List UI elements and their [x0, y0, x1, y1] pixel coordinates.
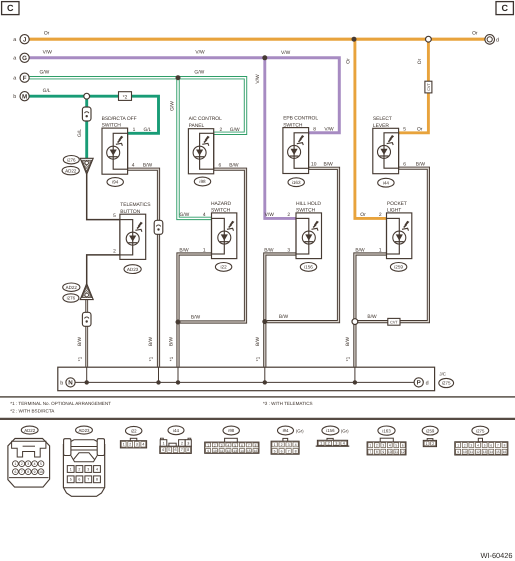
svg-text:1: 1: [70, 467, 72, 471]
svg-text:J: J: [23, 36, 27, 43]
svg-text:d: d: [426, 380, 429, 386]
svg-text:i98: i98: [228, 428, 234, 433]
label AD22 upper: [62, 166, 79, 174]
label i163 oval: [378, 426, 395, 435]
svg-text:B/W: B/W: [77, 336, 83, 346]
wire stub into bus: [264, 367, 266, 382]
svg-text:J/C: J/C: [439, 372, 446, 377]
svg-text:4: 4: [295, 443, 297, 447]
svg-text:15: 15: [247, 449, 251, 453]
svg-text:4: 4: [389, 444, 391, 448]
connector i94 pinout: [283, 438, 288, 441]
optional junction Or bus (open): [426, 36, 432, 42]
svg-text:i22: i22: [221, 265, 228, 270]
svg-text:4: 4: [132, 162, 135, 168]
wire G/W bus (F to A/C panel): [29, 78, 245, 134]
svg-text:8: 8: [295, 449, 297, 453]
connector i163 pinout: [380, 438, 393, 442]
svg-text:9: 9: [34, 470, 36, 474]
svg-text:8: 8: [255, 443, 257, 447]
svg-text:B/W: B/W: [168, 336, 174, 346]
svg-text:1: 1: [369, 444, 371, 448]
svg-text:2: 2: [181, 442, 183, 446]
svg-text:3: 3: [27, 462, 29, 466]
svg-text:LEVER: LEVER: [373, 123, 389, 129]
svg-text:F: F: [23, 75, 27, 82]
svg-text:5: 5: [403, 127, 406, 133]
label i259 connector oval: [390, 263, 406, 272]
svg-text:13: 13: [483, 450, 487, 454]
svg-text:V/W: V/W: [281, 50, 291, 56]
wire B/W telematics chain to ground bus: [85, 299, 88, 367]
svg-text:4: 4: [142, 443, 144, 447]
svg-text:*1: *1: [256, 356, 262, 361]
separator thick line: [0, 418, 515, 420]
svg-text:2: 2: [328, 442, 330, 446]
svg-text:B/W: B/W: [143, 162, 153, 168]
grid reference C right: [496, 2, 513, 15]
svg-text:12: 12: [476, 450, 480, 454]
svg-text:10: 10: [213, 449, 217, 453]
wire G/L drop to connector triangle: [85, 96, 88, 159]
wire V/W drop to HILL HOLD pin 2: [265, 58, 296, 219]
svg-text:2: 2: [78, 467, 80, 471]
svg-text:13: 13: [233, 449, 237, 453]
svg-text:Or: Or: [345, 58, 351, 64]
svg-text:3: 3: [382, 444, 384, 448]
svg-text:16: 16: [503, 450, 507, 454]
svg-text:6: 6: [490, 444, 492, 448]
label i156 oval and (Gr): [322, 426, 339, 435]
svg-text:a: a: [13, 76, 16, 82]
svg-text:4: 4: [228, 443, 230, 447]
svg-text:a: a: [13, 37, 16, 43]
connector d right end of Or bus: [485, 35, 495, 45]
svg-text:B/W: B/W: [345, 336, 351, 346]
svg-text:G: G: [22, 55, 27, 62]
svg-text:BSD/RCTA OFF: BSD/RCTA OFF: [102, 116, 137, 122]
svg-text:1: 1: [320, 442, 322, 446]
CVT option box on select B/W wire: [388, 318, 400, 325]
junction dot EPB + hill hold B/W: [262, 319, 267, 324]
grid reference C left: [2, 2, 19, 15]
label i98 oval: [223, 426, 239, 435]
lamp POCKET LIGHT: [387, 213, 412, 259]
svg-text:Or: Or: [44, 31, 50, 37]
svg-text:TELEMATICS: TELEMATICS: [120, 202, 151, 208]
svg-text:G/L: G/L: [144, 127, 152, 133]
svg-text:i156: i156: [304, 265, 313, 270]
svg-text:7: 7: [497, 444, 499, 448]
svg-text:6: 6: [78, 478, 80, 482]
svg-text:2: 2: [129, 443, 131, 447]
junction dot A/C + hazard B/W: [176, 320, 181, 325]
svg-text:BUTTON: BUTTON: [120, 209, 140, 215]
ground bus wire N to P: [75, 381, 414, 383]
svg-text:AD22: AD22: [66, 285, 78, 290]
wire B/W EPB pin 10 joining hill hold wire: [267, 168, 339, 321]
svg-text:3: 3: [187, 442, 189, 446]
junction dot on ground bus: [85, 380, 89, 384]
svg-text:Or: Or: [472, 30, 478, 36]
svg-text:12: 12: [401, 450, 405, 454]
svg-text:4: 4: [96, 467, 98, 471]
wire TELEMATICS pin 2 to lower triangle: [87, 255, 120, 285]
wire B/W HAZARD pin 1 down to ground bus: [178, 254, 212, 367]
svg-text:2: 2: [464, 444, 466, 448]
svg-text:b: b: [60, 380, 63, 386]
svg-text:AD22: AD22: [65, 168, 77, 173]
svg-text:Or: Or: [417, 127, 423, 133]
svg-text:2: 2: [281, 443, 283, 447]
label i156 connector oval: [300, 263, 316, 272]
label i259 oval: [422, 426, 438, 435]
connector i22 pinout: [130, 438, 137, 441]
svg-text:G/L: G/L: [77, 129, 83, 137]
svg-text:POCKET: POCKET: [387, 201, 407, 207]
svg-text:G/W: G/W: [230, 127, 240, 133]
svg-text:B/W: B/W: [148, 336, 154, 346]
svg-text:i259: i259: [394, 265, 403, 270]
connector pair AD22/i276 upper (triangle): [80, 158, 93, 174]
label i275 junction connector oval: [439, 378, 454, 387]
label AD23 connector oval: [124, 265, 141, 274]
svg-text:1: 1: [162, 442, 164, 446]
svg-text:B/W: B/W: [279, 314, 289, 320]
label AD22 lower: [63, 283, 80, 291]
svg-text:14: 14: [240, 449, 244, 453]
wire Or drop to POCKET LIGHT pin 2: [355, 39, 387, 218]
ground bus junction box: [58, 367, 435, 391]
svg-text:i22: i22: [131, 429, 137, 434]
svg-text:i276: i276: [67, 157, 76, 162]
svg-text:EPB CONTROL: EPB CONTROL: [283, 116, 318, 122]
svg-text:7: 7: [181, 448, 183, 452]
label i276 upper: [63, 156, 79, 164]
svg-text:7: 7: [87, 478, 89, 482]
svg-text:5: 5: [168, 448, 170, 452]
svg-text:2: 2: [113, 249, 116, 255]
svg-text:6: 6: [14, 470, 16, 474]
svg-text:i98: i98: [199, 179, 206, 184]
wire B/W HILL HOLD pin 3 down to ground bus: [265, 254, 296, 367]
optional junction pocket + select B/W (open): [352, 319, 358, 325]
svg-text:AD23: AD23: [79, 428, 91, 433]
svg-text:7: 7: [248, 443, 250, 447]
svg-text:1: 1: [133, 127, 136, 133]
connector i259 pinout: [427, 439, 433, 441]
noise filter symbol on G/L drop: [82, 107, 91, 121]
svg-text:CVT: CVT: [390, 320, 398, 324]
wire stub into bus: [86, 367, 88, 382]
svg-text:3: 3: [87, 467, 89, 471]
svg-text:4: 4: [477, 444, 479, 448]
svg-text:4: 4: [343, 442, 345, 446]
connector P ground bus: [414, 378, 423, 387]
connector pair AD22/i276 lower (triangle): [80, 284, 93, 300]
svg-text:*2 : WITH BSD/RCTA: *2 : WITH BSD/RCTA: [10, 409, 55, 414]
svg-text:1: 1: [457, 444, 459, 448]
junction dot G/W bus: [176, 75, 181, 80]
svg-text:C: C: [7, 3, 14, 13]
svg-text:1: 1: [274, 443, 276, 447]
option box *2 on G/L bus: [119, 92, 132, 101]
svg-text:SWITCH: SWITCH: [296, 208, 316, 214]
svg-text:i156: i156: [326, 428, 335, 433]
svg-text:*1: *1: [346, 356, 352, 361]
label AD22 oval: [21, 426, 38, 434]
wire Or drop via CVT to SELECT LEVER pin 5: [399, 39, 429, 133]
svg-text:SELECT: SELECT: [373, 116, 392, 122]
label AD23 oval: [76, 426, 93, 434]
svg-text:G/W: G/W: [194, 70, 204, 76]
svg-text:SWITCH: SWITCH: [283, 122, 303, 128]
svg-text:CVT: CVT: [427, 83, 431, 91]
connector AD22 pinout: [8, 439, 50, 488]
svg-text:PANEL: PANEL: [189, 123, 205, 129]
label i276 lower: [63, 294, 79, 302]
lamp HAZARD SWITCH: [212, 213, 237, 259]
label i275 oval: [472, 426, 489, 435]
svg-text:3: 3: [221, 443, 223, 447]
svg-text:11: 11: [220, 449, 224, 453]
label i44 oval: [168, 426, 184, 435]
svg-text:2: 2: [379, 212, 382, 218]
svg-text:9: 9: [382, 450, 384, 454]
wire B/W SELECT LEVER pin 6 via CVT joining pocket wire: [358, 168, 428, 321]
svg-text:2: 2: [376, 444, 378, 448]
svg-text:V/W: V/W: [265, 212, 275, 218]
svg-text:i275: i275: [476, 428, 485, 433]
svg-text:Or: Or: [360, 212, 366, 218]
svg-text:B/W: B/W: [355, 248, 365, 254]
svg-text:5: 5: [234, 443, 236, 447]
wire G/L bus (M to BSD/RCTA pin 1): [29, 96, 158, 133]
junction dot on ground bus: [353, 380, 357, 384]
label i22 connector oval: [215, 263, 231, 272]
svg-text:V/W: V/W: [255, 74, 261, 84]
svg-text:3: 3: [287, 248, 290, 254]
svg-text:B/W: B/W: [229, 162, 239, 168]
junction dot Or bus: [352, 37, 357, 42]
svg-text:11: 11: [470, 450, 474, 454]
svg-text:1: 1: [203, 248, 206, 254]
optional junction G/L bus (open): [84, 93, 90, 99]
connector AD23 pinout: [63, 444, 104, 496]
svg-text:i44: i44: [173, 428, 179, 433]
svg-text:3: 3: [335, 442, 337, 446]
svg-text:SWITCH: SWITCH: [102, 123, 122, 129]
svg-text:10: 10: [311, 162, 317, 168]
svg-text:15: 15: [496, 450, 500, 454]
connector i275 pinout: [478, 438, 482, 442]
svg-text:N: N: [68, 380, 73, 387]
svg-text:B/W: B/W: [416, 161, 426, 167]
junction dot on ground bus: [263, 380, 267, 384]
svg-text:*1: *1: [78, 356, 84, 361]
wire B/W POCKET LIGHT pin 1 down to ground bus: [355, 254, 387, 367]
junction dot on ground bus: [176, 380, 180, 384]
svg-text:9: 9: [207, 449, 209, 453]
label i98 connector oval: [194, 177, 210, 186]
svg-text:4: 4: [34, 462, 36, 466]
svg-text:*3 : WITH TELEMATICS: *3 : WITH TELEMATICS: [263, 401, 313, 406]
svg-text:6: 6: [174, 448, 176, 452]
junction dot V/W bus: [262, 55, 267, 60]
svg-text:6: 6: [241, 443, 243, 447]
svg-text:*2: *2: [123, 94, 128, 100]
svg-text:(Gr): (Gr): [296, 429, 304, 434]
label i22 oval: [126, 426, 142, 435]
CVT option box on Or select drop: [425, 81, 432, 93]
svg-text:B/W: B/W: [264, 248, 274, 254]
svg-text:7: 7: [369, 450, 371, 454]
svg-text:M: M: [22, 93, 27, 100]
svg-text:SWITCH: SWITCH: [211, 208, 231, 214]
svg-text:6: 6: [403, 161, 406, 167]
lamp TELEMATICS BUTTON: [120, 214, 146, 259]
svg-text:2: 2: [432, 442, 434, 446]
wire Or bus (J to d): [29, 38, 485, 41]
noise filter symbol on telematics B/W wire: [82, 312, 91, 326]
label i44 connector oval: [378, 178, 394, 187]
svg-text:5: 5: [113, 213, 116, 219]
wire stub into bus: [354, 367, 356, 382]
svg-text:10: 10: [463, 450, 467, 454]
svg-text:i94: i94: [283, 428, 289, 433]
wire stub into bus: [158, 367, 160, 382]
svg-text:5: 5: [395, 444, 397, 448]
svg-text:1: 1: [14, 462, 16, 466]
junction dot on ground bus: [156, 380, 160, 384]
connector i98 pinout: [225, 438, 238, 442]
label i94 connector oval: [107, 178, 123, 187]
svg-text:12: 12: [227, 449, 231, 453]
wire G/W drop to HAZARD pin 4: [178, 78, 212, 219]
svg-text:AD23: AD23: [127, 267, 139, 272]
svg-text:5: 5: [274, 449, 276, 453]
svg-text:6: 6: [219, 162, 222, 168]
noise filter symbol on BSD B/W wire: [154, 220, 163, 234]
connector i44 pinout: [161, 438, 164, 440]
svg-text:a: a: [13, 56, 16, 62]
svg-text:AD22: AD22: [24, 428, 36, 433]
lamp BSD/RCTA OFF SWITCH: [102, 128, 128, 174]
wire triangle to TELEMATICS pin 5: [87, 174, 120, 220]
svg-text:B/W: B/W: [324, 162, 334, 168]
wire B/W A/C panel pin 6 joining hazard wire: [180, 169, 246, 322]
svg-text:8: 8: [376, 450, 378, 454]
svg-text:3: 3: [470, 444, 472, 448]
svg-text:G/L: G/L: [43, 88, 51, 94]
svg-text:*1 : TERMINAL No. OPTIONAL AR: *1 : TERMINAL No. OPTIONAL ARRANGEMENT: [10, 401, 111, 406]
svg-text:3: 3: [288, 443, 290, 447]
svg-text:LIGHT: LIGHT: [387, 208, 401, 214]
lamp HILL HOLD SWITCH: [296, 213, 322, 259]
svg-text:6: 6: [281, 449, 283, 453]
svg-text:7: 7: [288, 449, 290, 453]
svg-text:8: 8: [96, 478, 98, 482]
svg-text:i44: i44: [383, 180, 390, 185]
svg-text:7: 7: [21, 470, 23, 474]
svg-text:2: 2: [214, 443, 216, 447]
svg-text:WI-60426: WI-60426: [480, 551, 512, 560]
connector i156 pinout: [327, 438, 333, 440]
svg-text:8: 8: [504, 444, 506, 448]
svg-text:V/W: V/W: [195, 50, 205, 56]
wire stub into bus: [177, 367, 179, 382]
svg-text:V/W: V/W: [324, 126, 334, 132]
svg-text:6: 6: [402, 444, 404, 448]
svg-text:14: 14: [489, 450, 493, 454]
svg-text:A/C CONTROL: A/C CONTROL: [189, 116, 222, 122]
svg-text:B/W: B/W: [191, 314, 201, 320]
svg-text:G/W: G/W: [180, 212, 190, 218]
svg-text:5: 5: [40, 462, 42, 466]
svg-text:11: 11: [394, 450, 398, 454]
svg-text:1: 1: [123, 443, 125, 447]
svg-text:1: 1: [379, 248, 382, 254]
svg-text:4: 4: [162, 448, 164, 452]
svg-text:C: C: [501, 3, 508, 13]
svg-text:i275: i275: [442, 381, 451, 386]
label i163 connector oval: [288, 178, 304, 187]
svg-text:P: P: [417, 380, 421, 387]
wire B/W BSD/RCTA pin 4 down to ground bus: [128, 169, 159, 367]
svg-text:V/W: V/W: [43, 50, 53, 56]
svg-text:*1: *1: [149, 356, 155, 361]
svg-text:10: 10: [388, 450, 392, 454]
svg-text:b: b: [13, 94, 16, 100]
svg-text:2: 2: [287, 212, 290, 218]
svg-text:1: 1: [426, 442, 428, 446]
svg-text:8: 8: [27, 470, 29, 474]
svg-text:2: 2: [21, 462, 23, 466]
svg-text:10: 10: [39, 470, 43, 474]
svg-text:B/W: B/W: [179, 248, 189, 254]
separator line: [0, 396, 515, 398]
svg-text:Or: Or: [417, 58, 423, 64]
svg-text:G/W: G/W: [169, 101, 175, 111]
svg-text:16: 16: [254, 449, 258, 453]
svg-text:8: 8: [313, 126, 316, 132]
wire V/W bus (G to EPB): [29, 58, 339, 133]
svg-text:B/W: B/W: [367, 314, 377, 320]
lamp A/C CONTROL PANEL: [188, 129, 213, 174]
svg-text:5: 5: [70, 478, 72, 482]
svg-text:i163: i163: [382, 428, 391, 433]
svg-text:i276: i276: [67, 296, 76, 301]
svg-text:HILL HOLD: HILL HOLD: [296, 201, 321, 207]
svg-text:i94: i94: [112, 180, 119, 185]
svg-text:5: 5: [484, 444, 486, 448]
svg-text:d: d: [496, 38, 499, 44]
svg-text:3: 3: [136, 443, 138, 447]
label i94 oval and (Gr): [278, 426, 294, 435]
svg-text:i163: i163: [292, 180, 301, 185]
svg-text:9: 9: [457, 450, 459, 454]
lamp EPB CONTROL SWITCH: [283, 128, 309, 174]
svg-text:i259: i259: [426, 428, 435, 433]
svg-text:B/W: B/W: [255, 336, 261, 346]
svg-text:HAZARD: HAZARD: [211, 201, 231, 207]
svg-text:4: 4: [203, 212, 206, 218]
svg-text:G/W: G/W: [40, 70, 50, 76]
svg-text:1: 1: [207, 443, 209, 447]
svg-text:*1: *1: [169, 356, 175, 361]
svg-text:2: 2: [220, 127, 223, 133]
lamp SELECT LEVER: [373, 128, 399, 173]
